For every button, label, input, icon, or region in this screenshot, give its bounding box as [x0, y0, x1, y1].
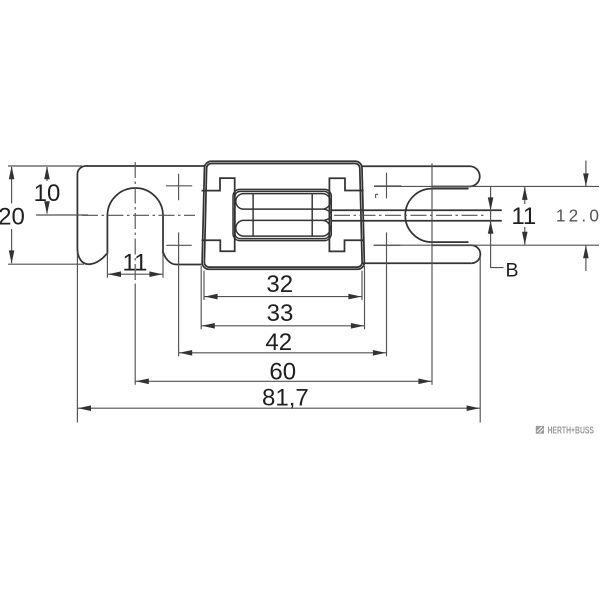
svg-text:42: 42 — [265, 329, 292, 356]
svg-text:81,7: 81,7 — [262, 385, 309, 412]
svg-text:HERTH+BUSS: HERTH+BUSS — [548, 425, 595, 436]
svg-text:11: 11 — [511, 203, 536, 230]
svg-text:12.0: 12.0 — [556, 206, 600, 226]
svg-text:33: 33 — [267, 300, 294, 327]
svg-text:60: 60 — [269, 359, 296, 386]
svg-text:32: 32 — [266, 271, 293, 298]
svg-text:11: 11 — [123, 249, 148, 276]
svg-text:20: 20 — [0, 204, 25, 231]
svg-text:10: 10 — [34, 180, 61, 207]
svg-text:B: B — [505, 259, 518, 281]
